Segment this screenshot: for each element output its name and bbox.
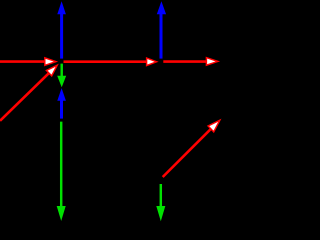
green vector down from node A shaft: [60, 64, 62, 77]
arrowhead H2 (white-filled) at node B: [147, 58, 157, 66]
blue vector up from node A head: [57, 1, 66, 14]
long green vector down head: [57, 206, 66, 221]
green vector down at node C head: [156, 206, 165, 221]
blue vector up from node B head: [157, 1, 166, 14]
arrowhead D2 (white-filled) at diagonal end: [208, 120, 220, 132]
long green vector down shaft: [60, 122, 62, 207]
arrowhead H1 (white-filled) at node A: [45, 58, 56, 66]
green vector down at node C shaft: [160, 184, 162, 207]
arrowhead H3 (white-filled) at x-axis end: [206, 58, 217, 66]
x-axis red segment middle: [64, 60, 148, 63]
red diagonal vector into node A: [0, 72, 51, 121]
blue vector up from node A shaft: [60, 14, 63, 59]
blue vector up mid-column head: [57, 88, 66, 101]
green vector down from node A head: [57, 76, 66, 87]
x-axis red segment left: [0, 60, 47, 63]
blue vector up mid-column shaft: [60, 100, 63, 119]
blue vector up from node B shaft: [160, 14, 163, 59]
arrowhead D1 (white-filled) at node A diagonal: [46, 65, 57, 76]
red diagonal vector at node C: [163, 128, 212, 177]
x-axis red segment right: [163, 60, 207, 63]
